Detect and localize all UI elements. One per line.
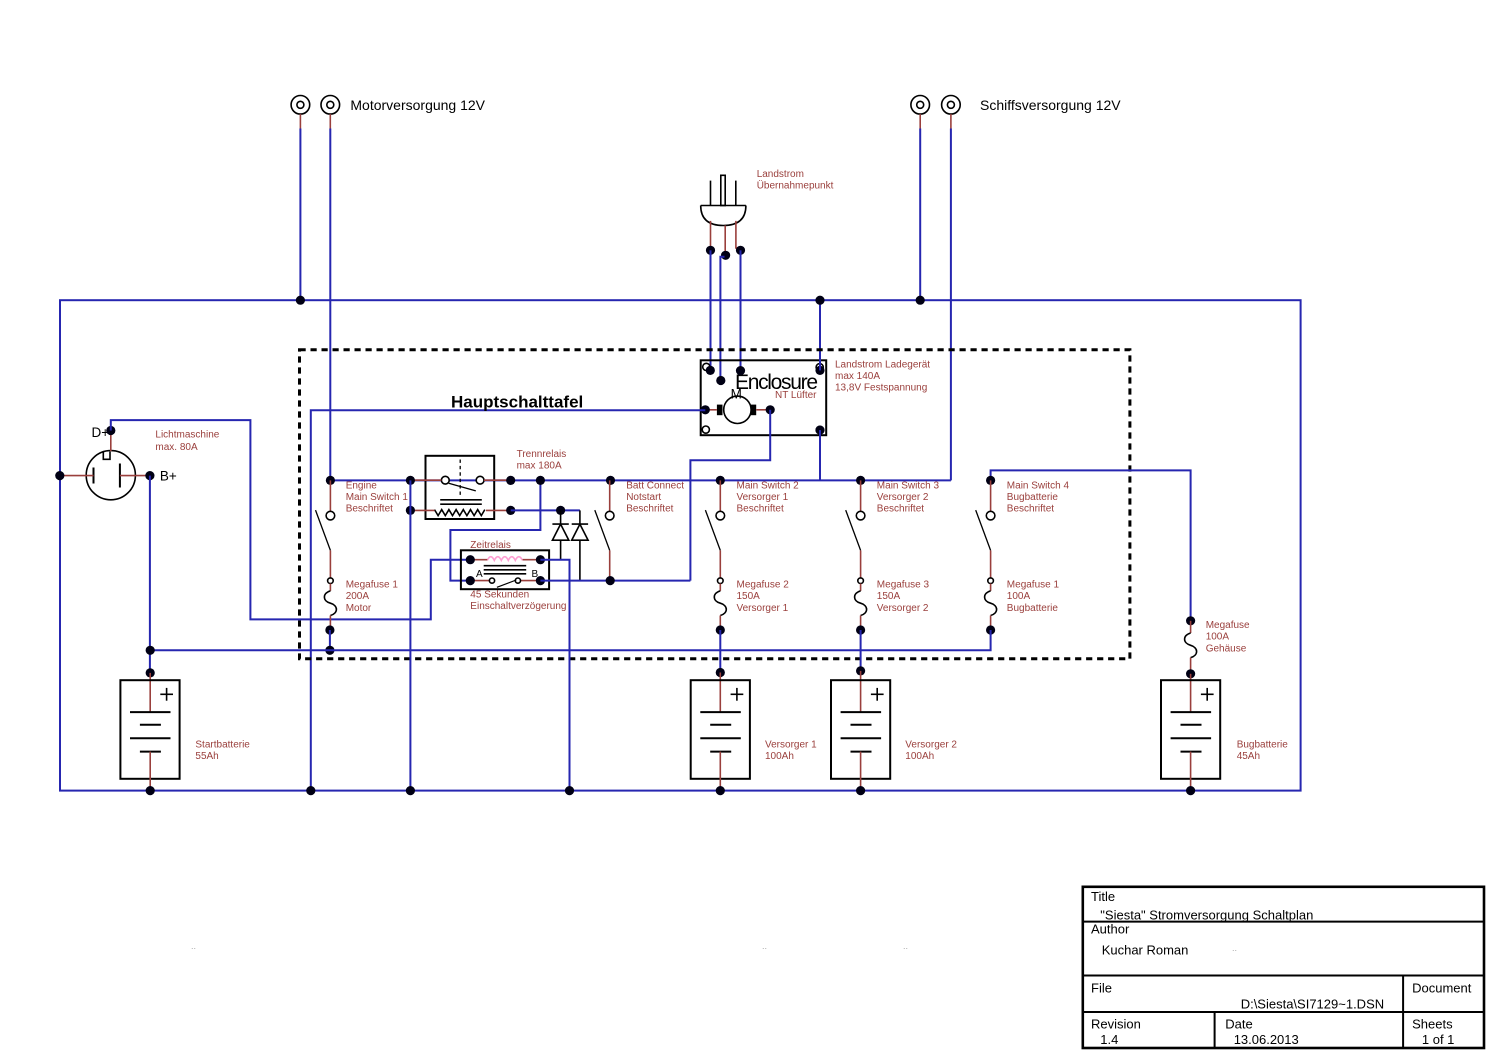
svg-text:13.06.2013: 13.06.2013 <box>1234 1032 1299 1047</box>
wire switch row bus <box>330 479 951 481</box>
svg-text:..: .. <box>903 941 908 951</box>
node enclosure junctions <box>701 366 825 435</box>
wire Main Switch 4 feed from Megafuse Gehaeuse branch <box>991 470 1191 620</box>
terminal J2 Schiffsversorgung pin 2 <box>942 96 961 129</box>
svg-text:Startbatterie: Startbatterie <box>195 739 250 750</box>
node plug junctions <box>706 246 745 260</box>
fuse F3 Megafuse 3 150A <box>855 578 867 676</box>
fuse F4 Megafuse 1 100A Bugbatterie <box>985 578 997 635</box>
relay K2 Zeitrelais <box>461 550 549 589</box>
wire switch row loop to Zeitrelais A terminal <box>450 476 545 581</box>
svg-text:Title: Title <box>1091 889 1115 904</box>
wire Trennrelais coil left down to bottom bus <box>409 480 411 790</box>
svg-text:45 Sekunden: 45 Sekunden <box>470 590 529 601</box>
svg-text:..: .. <box>191 941 196 951</box>
svg-text:Motor: Motor <box>346 603 372 614</box>
svg-text:Main Switch 4: Main Switch 4 <box>1007 480 1070 491</box>
svg-text:Landstrom Ladegerät: Landstrom Ladegerät <box>835 360 930 371</box>
svg-text:Notstart: Notstart <box>626 492 661 503</box>
wire Trennrelais coil right to diodes <box>511 506 580 515</box>
svg-text:100A: 100A <box>1206 632 1230 643</box>
switch S3 Main Switch 2 <box>705 476 725 578</box>
svg-text:"Siesta" Stromversorgung Schal: "Siesta" Stromversorgung Schaltplan <box>1100 907 1313 922</box>
wire Zeitrelais coil right down to bottom bus <box>540 560 569 791</box>
svg-text:Versorger 2: Versorger 2 <box>877 492 929 503</box>
wire Motorversorgung pin2 to switch row <box>329 129 331 481</box>
svg-text:100Ah: 100Ah <box>765 751 794 762</box>
svg-text:Engine: Engine <box>346 480 378 491</box>
svg-text:Kuchar Roman: Kuchar Roman <box>1102 942 1189 957</box>
svg-text:Versorger 1: Versorger 1 <box>737 492 789 503</box>
connector P1 Landstrom plug <box>701 175 746 255</box>
svg-text:Megafuse 1: Megafuse 1 <box>1007 580 1060 591</box>
svg-text:100A: 100A <box>1007 591 1031 602</box>
wire enclosure bottom-right to switch row <box>819 430 821 480</box>
svg-text:Megafuse 1: Megafuse 1 <box>346 580 399 591</box>
alternator G1 Lichtmaschine <box>60 431 150 500</box>
svg-text:Beschriftet: Beschriftet <box>346 504 393 515</box>
svg-text:Versorger 2: Versorger 2 <box>877 603 929 614</box>
svg-text:13,8V Festspannung: 13,8V Festspannung <box>835 383 927 394</box>
svg-text:45Ah: 45Ah <box>1237 751 1260 762</box>
svg-text:1.4: 1.4 <box>1100 1032 1118 1047</box>
terminal J2 Schiffsversorgung pin 1 <box>911 96 930 129</box>
svg-text:NT Lüfter: NT Lüfter <box>775 390 817 401</box>
switch S1 Engine Main Switch 1 <box>316 476 336 578</box>
svg-text:Main Switch 1: Main Switch 1 <box>346 492 409 503</box>
wire enclosure top-right to top bus <box>815 296 824 371</box>
svg-text:Date: Date <box>1225 1016 1252 1031</box>
svg-text:Einschaltverzögerung: Einschaltverzögerung <box>470 601 566 612</box>
title block texts <box>1091 889 1472 1047</box>
diode D2 <box>572 510 588 580</box>
svg-text:Megafuse: Megafuse <box>1206 620 1250 631</box>
svg-text:Beschriftet: Beschriftet <box>877 504 924 515</box>
svg-text:100Ah: 100Ah <box>905 751 934 762</box>
svg-text:..: .. <box>762 941 767 951</box>
wire Schiffsversorgung pin2 to switch row <box>950 129 952 481</box>
wire plug pin2 to enclosure <box>720 257 724 381</box>
wire main outer bus rectangle <box>60 300 1301 790</box>
battery BT4 Bugbatterie <box>1161 674 1220 795</box>
fuse F5 Megafuse 100A Gehaeuse <box>1185 616 1197 680</box>
svg-text:File: File <box>1091 980 1112 995</box>
fuse F1 Megafuse 1 200A Motor <box>324 578 336 655</box>
svg-text:Schiffsversorgung 12V: Schiffsversorgung 12V <box>980 97 1121 113</box>
svg-text:Lichtmaschine: Lichtmaschine <box>155 430 219 441</box>
node bottom bus junctions <box>306 786 574 795</box>
svg-text:200A: 200A <box>346 591 370 602</box>
node alternator junctions <box>55 426 154 480</box>
svg-text:D+: D+ <box>92 425 110 440</box>
battery BT1 Startbatterie <box>120 668 179 795</box>
svg-text:Versorger 2: Versorger 2 <box>905 739 957 750</box>
motor M1 NT fan <box>705 387 770 424</box>
enclosure U1 Landstrom Ladegeraet box <box>701 360 827 435</box>
wire motor right terminal loop to relay row <box>690 410 770 581</box>
svg-text:Übernahmepunkt: Übernahmepunkt <box>757 179 834 191</box>
switch S4 Main Switch 3 <box>846 476 866 578</box>
svg-text:Beschriftet: Beschriftet <box>737 504 784 515</box>
svg-text:Motorversorgung 12V: Motorversorgung 12V <box>350 97 485 113</box>
battery BT2 Versorger 1 <box>691 673 750 796</box>
svg-text:max 140A: max 140A <box>835 371 880 382</box>
diode D1 <box>552 510 568 559</box>
wire D+ to Zeitrelais coil <box>111 420 471 619</box>
terminal J1 Motorversorgung pin 2 <box>321 96 340 129</box>
svg-text:Author: Author <box>1091 922 1130 937</box>
svg-text:..: .. <box>1232 943 1237 953</box>
wire relay output row <box>540 580 690 582</box>
svg-text:Megafuse 2: Megafuse 2 <box>737 580 790 591</box>
svg-text:Main Switch 2: Main Switch 2 <box>737 480 800 491</box>
svg-text:A: A <box>476 569 483 580</box>
svg-text:max. 80A: max. 80A <box>155 442 198 453</box>
svg-text:1 of 1: 1 of 1 <box>1422 1032 1455 1047</box>
wire B+ down to battery bus <box>149 476 151 673</box>
relay K1 Trennrelais <box>406 456 516 519</box>
title block frame <box>1083 887 1484 1048</box>
svg-text:Versorger 1: Versorger 1 <box>765 739 817 750</box>
svg-text:150A: 150A <box>737 591 761 602</box>
wire battery positive bus y650 <box>146 630 991 655</box>
svg-text:Beschriftet: Beschriftet <box>1007 504 1054 515</box>
wire Motorversorgung pin1 to top bus <box>296 129 305 305</box>
svg-text:Main Switch 3: Main Switch 3 <box>877 480 940 491</box>
wire plug pin1 to enclosure <box>710 250 712 370</box>
svg-text:Gehäuse: Gehäuse <box>1206 643 1247 654</box>
wire plug pin3 to enclosure <box>740 250 742 370</box>
svg-text:Zeitrelais: Zeitrelais <box>470 540 511 551</box>
svg-text:max 180A: max 180A <box>517 461 562 472</box>
svg-text:Beschriftet: Beschriftet <box>626 504 673 515</box>
svg-text:Batt Connect: Batt Connect <box>626 480 684 491</box>
svg-text:D:\Siesta\SI7129~1.DSN: D:\Siesta\SI7129~1.DSN <box>1241 997 1384 1012</box>
wire motor left terminal to left drop <box>311 410 706 790</box>
wire Schiffsversorgung pin1 to top bus <box>916 129 925 305</box>
fuse F2 Megafuse 2 150A <box>714 578 726 677</box>
svg-text:B+: B+ <box>160 468 177 483</box>
svg-text:Document: Document <box>1412 980 1472 995</box>
svg-text:Versorger 1: Versorger 1 <box>737 603 789 614</box>
svg-text:Trennrelais: Trennrelais <box>517 449 567 460</box>
switch S2 Batt Connect Notstart <box>595 476 615 585</box>
svg-text:Bugbatterie: Bugbatterie <box>1007 603 1059 614</box>
faint scan marks <box>191 941 1237 953</box>
hauptschalttafel dashed boundary <box>300 350 1130 659</box>
svg-text:Revision: Revision <box>1091 1016 1141 1031</box>
battery BT3 Versorger 2 <box>831 671 890 795</box>
svg-text:55Ah: 55Ah <box>195 751 218 762</box>
terminal J1 Motorversorgung pin 1 <box>291 96 310 129</box>
svg-text:Landstrom: Landstrom <box>757 169 804 180</box>
svg-text:Sheets: Sheets <box>1412 1016 1453 1031</box>
switch S5 Main Switch 4 <box>976 476 996 578</box>
svg-text:M: M <box>731 387 742 402</box>
svg-text:Megafuse 3: Megafuse 3 <box>877 580 930 591</box>
svg-text:Bugbatterie: Bugbatterie <box>1007 492 1059 503</box>
svg-text:150A: 150A <box>877 591 901 602</box>
svg-text:Bugbatterie: Bugbatterie <box>1237 739 1289 750</box>
svg-text:Hauptschalttafel: Hauptschalttafel <box>451 392 583 411</box>
